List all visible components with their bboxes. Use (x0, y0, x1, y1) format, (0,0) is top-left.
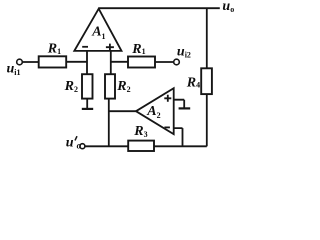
svg-text:o: o (77, 140, 82, 150)
svg-text:u: u (66, 135, 74, 150)
